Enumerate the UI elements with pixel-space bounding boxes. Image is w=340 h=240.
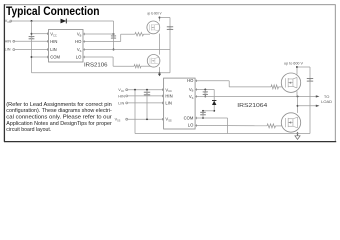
svg-text:LO: LO — [188, 122, 194, 127]
svg-text:HIN: HIN — [118, 94, 125, 98]
svg-text:circuit board layout.: circuit board layout. — [6, 127, 51, 133]
svg-text:Typical Connection: Typical Connection — [6, 6, 100, 18]
svg-text:LIN: LIN — [165, 101, 172, 106]
svg-text:LIN: LIN — [118, 101, 124, 105]
svg-text:IRS2106: IRS2106 — [84, 63, 108, 69]
svg-text:up to 600 V: up to 600 V — [147, 11, 162, 15]
svg-text:LOAD: LOAD — [321, 99, 332, 104]
svg-text:cal connections only. Please: cal connections only. Please refer to ou… — [6, 115, 112, 121]
svg-text:HIN: HIN — [165, 94, 172, 99]
svg-text:LO: LO — [76, 55, 82, 60]
svg-text:Application Notes and DesignTi: Application Notes and DesignTips for pro… — [6, 121, 112, 127]
svg-text:HIN: HIN — [5, 39, 12, 43]
svg-text:HO: HO — [75, 39, 82, 44]
svg-text:LIN: LIN — [50, 47, 57, 52]
svg-text:configuration). These diagrams: configuration). These diagrams show elec… — [6, 108, 112, 114]
svg-text:(Refer to Lead Assignments for: (Refer to Lead Assignments for correct p… — [6, 102, 112, 108]
svg-text:up to 600 V: up to 600 V — [284, 61, 303, 66]
svg-text:COM: COM — [184, 116, 194, 121]
svg-text:COM: COM — [50, 55, 60, 60]
svg-text:HO: HO — [187, 78, 194, 83]
svg-text:HIN: HIN — [50, 39, 57, 44]
svg-text:LIN: LIN — [5, 48, 11, 52]
svg-text:IRS21064: IRS21064 — [237, 103, 267, 109]
